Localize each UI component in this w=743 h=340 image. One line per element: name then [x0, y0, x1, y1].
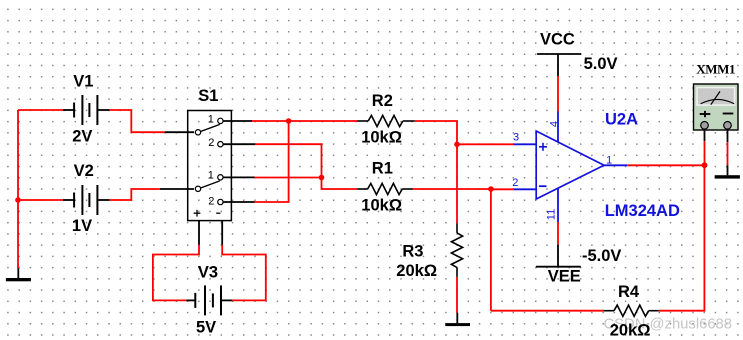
svg-text:10kΩ: 10kΩ: [361, 129, 402, 147]
svg-text:11: 11: [545, 209, 557, 220]
svg-text:2: 2: [208, 137, 214, 149]
wire contact 2A down: [223, 143, 255, 145]
wire pin11 to VEE: [557, 222, 559, 245]
resistor R2: [357, 115, 415, 126]
svg-text:1: 1: [208, 114, 214, 126]
svg-text:XMM1: XMM1: [696, 62, 735, 77]
switch S1 pole B arm: [201, 181, 220, 188]
svg-text:4: 4: [548, 121, 560, 127]
svg-text:VCC: VCC: [540, 31, 575, 49]
wire R1 to node D: [413, 188, 491, 190]
wire XMM1 plus terminal: [704, 129, 706, 141]
switch S1 pole B common terminal: [195, 186, 200, 191]
svg-text:2: 2: [208, 195, 214, 207]
ground right: [727, 165, 729, 175]
wire junction B to R1: [322, 178, 358, 190]
wire contact 1A to R2: [223, 120, 252, 122]
node junction C: [454, 142, 460, 148]
resistor R3: [451, 223, 462, 277]
svg-text:LM324AD: LM324AD: [605, 202, 680, 220]
svg-text:5V: 5V: [196, 319, 216, 337]
wire V1 to S1: [109, 110, 164, 132]
wire XMM1 minus terminal: [727, 129, 729, 142]
node junction A: [286, 118, 292, 124]
svg-text:1V: 1V: [72, 217, 92, 235]
node junction left rail / V2: [15, 197, 21, 203]
wire V2 to S1: [109, 189, 159, 200]
svg-text:1: 1: [606, 155, 612, 167]
switch S1 box: [188, 111, 232, 221]
wire R3 to ground: [456, 277, 458, 313]
svg-text:U2A: U2A: [605, 110, 638, 128]
wire node C down to R3: [456, 144, 458, 223]
switch S1 contact 1A: [218, 118, 223, 123]
node junction B: [319, 175, 325, 181]
switch S1 contact 1B: [218, 175, 223, 180]
battery V2: [63, 185, 110, 215]
ground left: [6, 268, 31, 281]
wire R4 up to output node: [659, 165, 705, 310]
svg-text:10kΩ: 10kΩ: [361, 197, 402, 215]
svg-text:20kΩ: 20kΩ: [610, 321, 651, 339]
svg-text:5.0V: 5.0V: [584, 55, 618, 73]
battery V3: [186, 285, 232, 315]
svg-text:R2: R2: [372, 92, 393, 110]
power VCC: [537, 54, 581, 76]
svg-text:1: 1: [208, 170, 214, 182]
wire S1 bottom stems to V3: [198, 221, 200, 245]
ground middle: [445, 313, 470, 326]
wire contact 2B up to junction A: [223, 201, 254, 203]
wire R2 to node C: [415, 121, 457, 144]
wire contact 1B to junction B: [223, 176, 254, 178]
switch S1 contact 2B: [218, 199, 223, 204]
svg-text:-5.0V: -5.0V: [582, 247, 621, 265]
power VEE: [536, 245, 581, 267]
svg-text:V2: V2: [74, 162, 94, 180]
node junction E: [702, 162, 708, 168]
wire node D to op-amp pin2: [491, 188, 514, 190]
svg-text:V3: V3: [198, 263, 218, 281]
wire left rail vertical: [17, 110, 19, 268]
svg-text:R4: R4: [618, 283, 640, 301]
label S1 plus: [194, 210, 201, 217]
resistor R1: [357, 183, 413, 194]
wire feedback bottom: [491, 310, 604, 312]
svg-text:2: 2: [512, 177, 518, 189]
switch S1 pole A common terminal: [195, 130, 200, 135]
svg-text:S1: S1: [198, 87, 218, 105]
wire VCC to pin4: [557, 76, 559, 112]
svg-text:20kΩ: 20kΩ: [396, 262, 437, 280]
svg-text:R1: R1: [372, 159, 393, 177]
wire node C to op-amp pin3: [457, 143, 514, 145]
svg-text:3: 3: [513, 132, 519, 144]
wire V2 left: [18, 199, 63, 201]
battery V1: [63, 95, 110, 125]
multimeter XMM1: [694, 84, 739, 130]
wire feedback node D down: [490, 189, 492, 311]
node junction D: [488, 186, 494, 192]
label S1 minus: [216, 212, 220, 214]
switch S1 contact 2A: [218, 142, 223, 147]
svg-text:R3: R3: [402, 243, 423, 261]
svg-text:VEE: VEE: [548, 267, 581, 285]
switch S1 pole A arm: [201, 124, 220, 131]
wire output to node E: [627, 164, 704, 166]
wire V1 left: [18, 109, 63, 111]
op-amp U2A: [514, 112, 627, 223]
svg-text:2V: 2V: [72, 128, 92, 146]
svg-text:V1: V1: [73, 72, 93, 90]
resistor R4: [604, 305, 659, 316]
